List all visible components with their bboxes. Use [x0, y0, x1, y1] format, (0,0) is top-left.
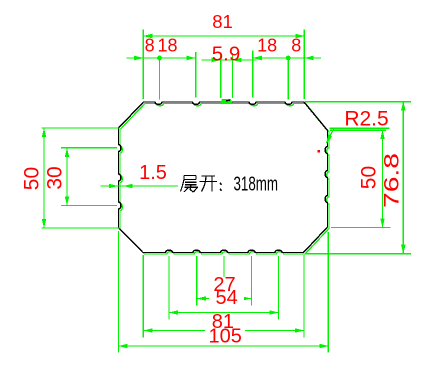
seam gap marker (green bump at top center, 5.9): [220, 99, 232, 103]
dim 81 top: dimension line: [143, 35, 304, 37]
bottom extension line x196.5: [196, 256, 198, 306]
arrow 76.8 bottom: [401, 245, 406, 254]
extension line x288.2 (8 right): [287, 58, 289, 100]
dim 30 left: extension line top: [61, 147, 117, 149]
white mask under text 54: [209, 292, 244, 304]
arrow 18-right: [253, 56, 262, 61]
arrow 50-left top: [42, 128, 47, 137]
dim 5.9: dimension line with tails: [202, 59, 257, 61]
svg-text:8: 8: [145, 36, 155, 56]
dim 50 left: extension line bottom: [42, 227, 121, 229]
dim 81 bottom: dimension line: [144, 330, 305, 332]
svg-text:105: 105: [209, 326, 242, 348]
dim 50 left: extension line top: [42, 127, 121, 129]
bottom extension line x304: [303, 255, 305, 338]
dim 18/8 row right: dimension line: [253, 57, 321, 59]
label 展开: 318mm (hand-drawn CJK + text): [181, 176, 222, 193]
dim 5.9: extension line right: [232, 53, 234, 98]
profile inner contour (green offset copy): [120, 104, 329, 255]
arrow 50-right top: [380, 130, 385, 139]
arrow 5.9 right outside: [233, 58, 242, 63]
svg-text:81: 81: [212, 11, 233, 32]
arrow 30 bottom: [65, 197, 70, 206]
arrow 30 top: [65, 148, 70, 157]
svg-text:50: 50: [358, 166, 381, 189]
extension line x252.7 (18 right): [252, 51, 254, 98]
arrow 76.8 top: [401, 102, 406, 111]
dim 8/18 row left: dimension line: [127, 57, 196, 59]
arrow 81-bottom right: [295, 328, 304, 333]
arrow 1.5 left outside: [109, 184, 118, 189]
arrow 81-top left: [143, 34, 152, 39]
svg-text:R2.5: R2.5: [344, 108, 388, 131]
dim 50 left: dimension line: [43, 128, 45, 228]
arrow 5.9 left outside: [212, 58, 221, 63]
bottom extension line x278.5: [278, 256, 280, 320]
dim 50 right: extension line bottom: [331, 227, 391, 229]
dim 27: dimension line: [197, 298, 251, 300]
svg-text:30: 30: [44, 166, 67, 189]
arrow 18-left: [187, 56, 196, 61]
bottom extension line x143.5: [142, 255, 144, 338]
dim 105: dimension line: [119, 345, 329, 347]
dot shared 8/18 left: [157, 56, 162, 61]
dim 76.8: dimension line: [402, 102, 404, 254]
seam black tick: [226, 99, 230, 102]
arrow 81-bottom left: [144, 328, 153, 333]
bottom extension line x328.3: [327, 232, 329, 353]
red center mark of R2.5: [318, 150, 321, 153]
dim 81 top: extension line right: [303, 30, 305, 100]
arrow 105 right: [319, 344, 328, 349]
glyph 开: [200, 176, 218, 192]
svg-text:18: 18: [157, 36, 177, 56]
dim 81 top: extension line left: [142, 30, 144, 100]
bottom extension line x224 (center): [223, 256, 225, 277]
dim 50 right: dimension line: [382, 130, 384, 228]
bottom extension line x251.5: [250, 256, 252, 306]
colon of label: [220, 183, 222, 191]
arrow 54 left: [169, 310, 178, 315]
arrow 27 left: [197, 296, 206, 301]
dim 50 right: extension line top: [330, 129, 386, 131]
dot shared 18/8 right: [286, 56, 291, 61]
bottom extension line x169: [168, 256, 170, 320]
dim 30 left: dimension line: [66, 148, 68, 206]
svg-text:5.9: 5.9: [212, 43, 241, 66]
arrow 8-right outside: [304, 56, 313, 61]
arrow R2.5 leader: [326, 135, 332, 144]
svg-text:76.8: 76.8: [381, 153, 404, 208]
dim 30 left: extension line bottom: [61, 205, 117, 207]
arrow 81-top right: [295, 34, 304, 39]
svg-text:318mm: 318mm: [234, 174, 279, 196]
arrow 54 right: [270, 310, 279, 315]
dim 5.9: extension line left: [220, 53, 222, 98]
arrow 105 left: [119, 344, 128, 349]
svg-text:1.5: 1.5: [139, 162, 167, 184]
svg-text:50: 50: [21, 167, 44, 190]
extension line x196 (18 left): [195, 52, 197, 98]
arrow 1.5 right outside: [124, 184, 133, 189]
white mask under text 105: [205, 328, 245, 342]
profile outer contour (black): [119, 102, 328, 253]
glyph 展: [181, 176, 199, 193]
arrow 27 right: [242, 296, 251, 301]
dim 54: dimension line: [169, 312, 279, 314]
arrow 50-left bottom: [42, 219, 47, 228]
arrow 50-right bottom: [380, 219, 385, 228]
R2.5 leader: diagonal: [327, 128, 335, 143]
bottom extension line x118.5: [118, 231, 120, 353]
svg-text:8: 8: [291, 36, 301, 56]
dim 76.8: extension line top: [305, 101, 411, 103]
svg-text:18: 18: [257, 36, 277, 56]
arrow 8-left outside: [134, 56, 143, 61]
R2.5 leader: underline: [329, 127, 389, 129]
dim 76.8: extension line bottom: [305, 253, 411, 255]
svg-text:54: 54: [215, 287, 237, 309]
extension line x159.5 (8 left): [159, 58, 161, 100]
dim 1.5: leader line: [100, 185, 178, 187]
